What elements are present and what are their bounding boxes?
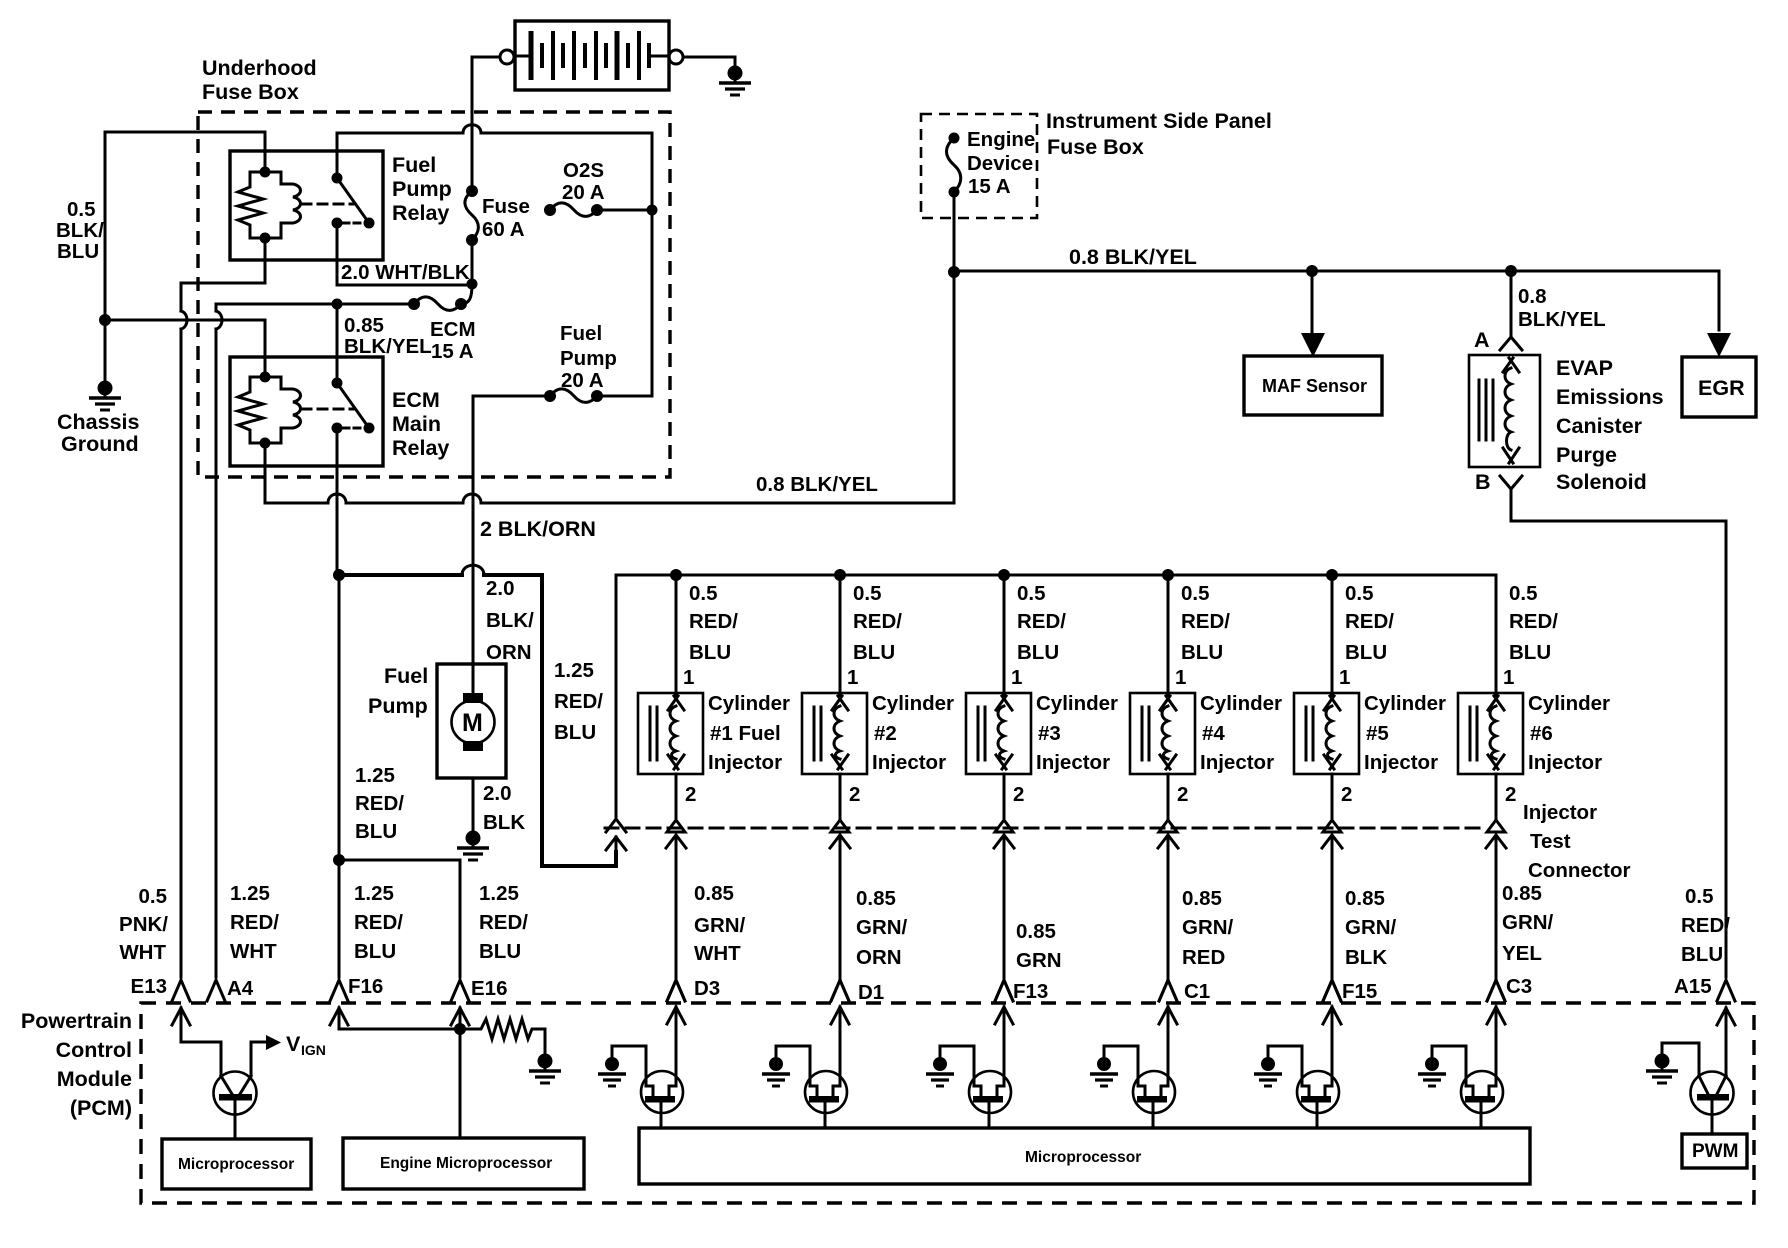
svg-text:0.85: 0.85: [344, 314, 384, 337]
svg-text:O2S: O2S: [563, 159, 604, 182]
svg-text:0.85: 0.85: [1182, 887, 1222, 910]
svg-text:Instrument Side Panel: Instrument Side Panel: [1046, 109, 1272, 133]
svg-text:Cylinder: Cylinder: [872, 692, 954, 715]
svg-text:GRN/: GRN/: [1345, 916, 1397, 939]
svg-text:Injector: Injector: [872, 751, 946, 774]
svg-text:M: M: [462, 709, 483, 737]
svg-text:Cylinder: Cylinder: [1200, 692, 1282, 715]
injector INJ6 (Cylinder #6 Injector): [1458, 575, 1558, 1001]
svg-text:BLK/YEL: BLK/YEL: [344, 335, 432, 358]
node injector 4 feed: [1162, 569, 1174, 581]
svg-text:Underhood: Underhood: [202, 56, 317, 80]
wire: O2S fuse to right rail: [597, 209, 652, 212]
svg-text:Cylinder: Cylinder: [1528, 692, 1610, 715]
wire F16 down to PCM: [338, 860, 341, 977]
svg-text:Microprocessor: Microprocessor: [1025, 1149, 1141, 1166]
svg-text:#2: #2: [874, 722, 897, 745]
svg-text:Fuse Box: Fuse Box: [1047, 135, 1144, 159]
svg-text:Chassis: Chassis: [57, 410, 140, 434]
component: Fuel Pump: [437, 664, 506, 778]
svg-text:Engine: Engine: [967, 128, 1035, 151]
node injector 1 feed: [670, 569, 682, 581]
svg-text:2 BLK/ORN: 2 BLK/ORN: [480, 517, 596, 541]
svg-text:2.0: 2.0: [486, 577, 515, 600]
svg-text:0.85: 0.85: [694, 882, 734, 905]
svg-text:Injector: Injector: [1528, 751, 1602, 774]
wire: 0.5 BLK/BLU top segment to fuel pump relay coil: [105, 132, 265, 167]
svg-text:ORN: ORN: [486, 641, 532, 664]
EVAP B connector chevron: [1500, 476, 1522, 489]
wire A4: hop over chassis wire, down to PCM: [216, 311, 222, 977]
bus connector chevrons at test connector line: [606, 819, 626, 852]
svg-text:GRN/: GRN/: [856, 916, 908, 939]
svg-text:F16: F16: [348, 975, 383, 998]
injector test connector dashed line: [605, 827, 1482, 830]
svg-text:RED/: RED/: [554, 690, 603, 713]
svg-text:GRN/: GRN/: [1502, 911, 1554, 934]
EGR arrow: [1707, 333, 1731, 357]
svg-text:1.25: 1.25: [230, 882, 270, 905]
svg-text:0.8 BLK/YEL: 0.8 BLK/YEL: [756, 473, 878, 496]
svg-text:Microprocessor: Microprocessor: [178, 1156, 294, 1173]
wire 0.5 BLK/BLU vertical: [104, 132, 107, 320]
node: 2.0 WHT/BLK junction: [467, 279, 478, 290]
svg-text:Canister: Canister: [1556, 414, 1643, 438]
svg-text:60 A: 60 A: [482, 218, 525, 241]
ECM 15A fuse: [408, 297, 467, 311]
wire: switch top to O2S branch (hop over battery wire at x=472): [337, 133, 652, 210]
node: bus left end: [333, 569, 345, 581]
svg-text:#1 Fuel: #1 Fuel: [710, 722, 781, 745]
wire to EVAP A with connector chevron: [1510, 271, 1513, 336]
fuse 60A: [465, 185, 479, 246]
svg-text:0.5: 0.5: [139, 885, 168, 908]
injector INJ4 (Cylinder #4 Injector): [1130, 575, 1230, 1001]
svg-text:MAF Sensor: MAF Sensor: [1262, 376, 1367, 396]
svg-text:Emissions: Emissions: [1556, 385, 1664, 409]
svg-text:Engine Microprocessor: Engine Microprocessor: [380, 1155, 552, 1172]
pin C3 connector fork: [1487, 980, 1505, 1001]
svg-text:GRN: GRN: [1016, 949, 1062, 972]
svg-text:BLU: BLU: [355, 820, 397, 843]
node: E16/F16/resistor junction: [454, 1023, 466, 1035]
pin E16 arrow inside PCM: [451, 1008, 469, 1025]
pin A4 connector fork: [207, 980, 225, 1001]
pin A15 arrow inside PCM: [1717, 1008, 1735, 1025]
PCM dashed border: [141, 1003, 1754, 1203]
svg-text:WHT: WHT: [230, 940, 277, 963]
wire: junction down to ECM relay switch: [336, 304, 339, 385]
svg-text:RED/: RED/: [479, 911, 528, 934]
svg-text:GRN/: GRN/: [1182, 916, 1234, 939]
svg-text:RED: RED: [1182, 946, 1225, 969]
injector INJ5 (Cylinder #5 Injector): [1294, 575, 1394, 1001]
microprocessor U3 box (injector drivers): [639, 1128, 1530, 1184]
svg-text:20 A: 20 A: [562, 181, 605, 204]
svg-text:RED/: RED/: [354, 911, 403, 934]
wire: fp fuse right up to O2S junction: [597, 213, 652, 396]
svg-text:1.25: 1.25: [355, 764, 395, 787]
EGR box: [1682, 357, 1756, 417]
svg-text:0.85: 0.85: [1016, 920, 1056, 943]
transistor Q6 driver cell (pin F15) with ground: [1254, 1007, 1341, 1128]
svg-text:Pump: Pump: [560, 347, 617, 370]
wire E13: hop over chassis wire, down to PCM: [181, 311, 187, 977]
svg-text:A15: A15: [1674, 975, 1712, 998]
svg-text:15 A: 15 A: [968, 175, 1011, 198]
pin E13 arrow inside PCM: [172, 1008, 190, 1025]
svg-text:BLK/: BLK/: [56, 219, 104, 242]
transistor Q3 driver cell (pin D1) with ground: [762, 1007, 849, 1128]
svg-text:Injector: Injector: [1364, 751, 1438, 774]
svg-text:#6: #6: [1530, 722, 1553, 745]
transistor Q4 driver cell (pin F13) with ground: [926, 1007, 1013, 1128]
svg-text:2.0: 2.0: [483, 782, 512, 805]
wire: junction down to chassis ground: [104, 320, 107, 381]
svg-text:Device: Device: [967, 152, 1033, 175]
svg-text:Cylinder: Cylinder: [708, 692, 790, 715]
svg-text:0.5: 0.5: [1685, 885, 1714, 908]
relay K1 box (Fuel Pump Relay): [230, 151, 383, 260]
node: chassis ground junction: [99, 314, 111, 326]
svg-text:PWM: PWM: [1692, 1141, 1738, 1162]
node: EVAP branch: [1505, 265, 1517, 277]
svg-text:E13: E13: [131, 975, 167, 998]
main 12V bus (thick) with hop over fuel pump wire: [339, 575, 616, 866]
svg-text:Connector: Connector: [1528, 859, 1631, 882]
node injector 3 feed: [998, 569, 1010, 581]
svg-text:BLU: BLU: [479, 940, 521, 963]
transistor Q2 driver cell (pin D3) with ground: [598, 1007, 685, 1128]
instrument side panel fuse box (dashed): [921, 114, 1037, 218]
svg-text:2.0 WHT/BLK: 2.0 WHT/BLK: [341, 261, 470, 284]
svg-text:A4: A4: [227, 977, 254, 1000]
svg-text:RED/: RED/: [230, 911, 279, 934]
pin E13 connector fork: [172, 980, 190, 1001]
svg-text:BLK/YEL: BLK/YEL: [1518, 308, 1606, 331]
pin C1 connector fork: [1159, 980, 1177, 1001]
svg-text:0.85: 0.85: [1502, 882, 1542, 905]
svg-text:1.25: 1.25: [354, 882, 394, 905]
pin F16 connector fork: [330, 980, 348, 1001]
svg-text:#5: #5: [1366, 722, 1389, 745]
node VIGN arrow: [266, 1035, 281, 1050]
svg-text:BLU: BLU: [554, 721, 596, 744]
pin F15 connector fork: [1323, 980, 1341, 1001]
svg-text:V: V: [286, 1032, 301, 1056]
svg-text:RED/: RED/: [1681, 914, 1730, 937]
ground (battery): [719, 66, 751, 96]
wire: E13 to transistor Q1: [181, 1008, 221, 1076]
chassis ground symbol: [89, 381, 121, 411]
svg-text:Pump: Pump: [392, 177, 452, 201]
motor M (fuel pump): [452, 701, 495, 744]
svg-text:F15: F15: [1342, 980, 1377, 1003]
svg-text:Cylinder: Cylinder: [1036, 692, 1118, 715]
injector INJ3 (Cylinder #3 Injector): [966, 575, 1066, 1001]
svg-text:Fuel: Fuel: [560, 322, 602, 345]
svg-text:BLK/: BLK/: [486, 609, 534, 632]
svg-text:Pump: Pump: [368, 694, 428, 718]
svg-text:D3: D3: [694, 977, 720, 1000]
svg-text:Injector: Injector: [1523, 801, 1597, 824]
node: MAF branch: [1306, 265, 1318, 277]
pin E16 connector fork: [451, 980, 469, 1001]
pin A15 connector fork: [1717, 980, 1735, 1001]
wire: fuse down to 0.8 BLK/YEL bus: [953, 192, 956, 272]
svg-text:BLU: BLU: [57, 240, 99, 263]
svg-text:Purge: Purge: [1556, 443, 1617, 467]
svg-text:C1: C1: [1184, 980, 1210, 1003]
svg-text:Module: Module: [57, 1067, 132, 1091]
svg-text:Fuel: Fuel: [384, 664, 428, 688]
node: 0.85 BLK/YEL junction: [332, 299, 343, 310]
wire: fuse60 bottom to junction and into ECM fuse: [461, 240, 472, 304]
relay K2 box (ECM Main Relay): [230, 357, 383, 466]
wire battery negative to ground: [683, 57, 735, 66]
wire: fuel pump relay coil bottom to E13 line: [181, 238, 265, 311]
svg-text:EVAP: EVAP: [1556, 356, 1613, 380]
svg-text:D1: D1: [858, 981, 884, 1004]
transistor Q1: [214, 1072, 257, 1115]
svg-text:ORN: ORN: [856, 946, 902, 969]
svg-text:EGR: EGR: [1698, 376, 1745, 400]
svg-text:Main: Main: [392, 412, 441, 436]
wire: down and left to ECM relay coil (0.8 BLK/YEL), hops at 337 and 472: [265, 272, 954, 503]
engine microprocessor U2 box: [343, 1138, 584, 1189]
svg-text:ECM: ECM: [430, 318, 476, 341]
svg-text:BLK: BLK: [483, 811, 525, 834]
svg-text:0.8: 0.8: [1518, 285, 1547, 308]
ground (resistor R1): [529, 1054, 561, 1084]
svg-text:0.85: 0.85: [1345, 887, 1385, 910]
injector INJ1 (Cylinder #1 Fuel Injector): [638, 575, 738, 1001]
svg-text:1.25: 1.25: [479, 882, 519, 905]
injector INJ2 (Cylinder #2 Injector): [802, 575, 902, 1001]
transistor Q8 (PWM driver): [1691, 1072, 1734, 1115]
svg-text:(PCM): (PCM): [70, 1096, 132, 1120]
svg-text:C3: C3: [1506, 975, 1532, 998]
svg-text:BLU: BLU: [354, 940, 396, 963]
wire: ECM fuse left to A4 corner: [216, 304, 414, 311]
PWM box: [1682, 1134, 1747, 1168]
svg-text:Fuse Box: Fuse Box: [202, 80, 299, 104]
svg-text:BLK: BLK: [1345, 946, 1387, 969]
svg-text:YEL: YEL: [1502, 942, 1542, 965]
resistor R1 (pull-down): [460, 1019, 545, 1054]
underhood fuse box dashed border: [198, 112, 670, 477]
node: F16/E16 split: [333, 854, 345, 866]
svg-text:B: B: [1475, 470, 1491, 494]
battery terminal circles: [500, 50, 514, 64]
thin bus to injectors: [616, 575, 1496, 693]
EVAP coil: [1503, 358, 1519, 372]
node injector 5 feed: [1326, 569, 1338, 581]
svg-text:Cylinder: Cylinder: [1364, 692, 1446, 715]
svg-text:F13: F13: [1013, 980, 1048, 1003]
pin F16 arrow inside PCM: [330, 1008, 348, 1025]
svg-text:Test: Test: [1530, 830, 1571, 853]
svg-text:1.25: 1.25: [554, 659, 594, 682]
wire: F16 to E16 node: [339, 1008, 460, 1029]
svg-text:A: A: [1474, 328, 1490, 352]
svg-text:Ground: Ground: [61, 432, 139, 456]
pin F13 connector fork: [995, 980, 1013, 1001]
svg-text:Injector: Injector: [708, 751, 782, 774]
node: 0.8 BLK/YEL junction at fuse output: [948, 266, 960, 278]
svg-text:#4: #4: [1202, 722, 1225, 745]
O2S 20A fuse: [544, 203, 603, 217]
microprocessor U1 box: [162, 1139, 311, 1189]
svg-text:Injector: Injector: [1200, 751, 1274, 774]
transistor Q7 driver cell (pin C3) with ground: [1418, 1007, 1505, 1128]
svg-text:Powertrain: Powertrain: [21, 1009, 132, 1033]
svg-text:Injector: Injector: [1036, 751, 1110, 774]
svg-text:15 A: 15 A: [431, 340, 474, 363]
svg-text:PNK/: PNK/: [119, 913, 168, 936]
svg-text:0.8 BLK/YEL: 0.8 BLK/YEL: [1069, 245, 1197, 269]
svg-text:RED/: RED/: [355, 792, 404, 815]
svg-text:ECM: ECM: [392, 388, 440, 412]
svg-text:Fuel: Fuel: [392, 153, 436, 177]
wire + arrow to MAF sensor: [1311, 271, 1314, 333]
svg-text:0.85: 0.85: [856, 887, 896, 910]
svg-text:WHT: WHT: [119, 941, 166, 964]
wire: E16 to engine microprocessor: [459, 1008, 462, 1138]
wire: ECM relay switch bottom down to bus: [337, 430, 339, 860]
fuel pump 20A fuse: [544, 389, 603, 403]
svg-text:#3: #3: [1038, 722, 1061, 745]
wire: junction to ECM relay coil top: [105, 320, 265, 373]
svg-text:BLU: BLU: [1681, 943, 1723, 966]
wire: EVAP B down, right, down to PCM A15: [1511, 489, 1726, 977]
fuse: Engine Device 15 A: [947, 133, 961, 198]
ECM main relay (coil + switch): [238, 372, 375, 449]
transistor Q5 driver cell (pin C1) with ground: [1090, 1007, 1177, 1128]
svg-text:0.5: 0.5: [67, 198, 96, 221]
svg-text:Solenoid: Solenoid: [1556, 470, 1647, 494]
wire battery positive to fuse box: [472, 57, 500, 191]
node: right rail junction: [647, 205, 658, 216]
svg-text:E16: E16: [471, 977, 507, 1000]
node injector 2 feed: [834, 569, 846, 581]
pin D3 connector fork: [667, 980, 685, 1001]
solenoid: EVAP purge solenoid box: [1469, 355, 1540, 467]
svg-text:Control: Control: [56, 1038, 132, 1062]
MAF sensor box: [1244, 356, 1382, 415]
wire + ground (transistor Q8 base circuit): [1662, 1043, 1699, 1076]
pin D1 connector fork: [831, 980, 849, 1001]
battery: [515, 21, 669, 90]
wire: fp relay switch bottom down, 2.0 WHT/BLK to junction: [337, 223, 472, 285]
svg-text:WHT: WHT: [694, 942, 741, 965]
svg-text:Relay: Relay: [392, 201, 449, 225]
wire to E16: [339, 860, 460, 977]
wire: fp fuse left corner down toward fuel pump: [473, 396, 550, 693]
wire 0.8 BLK/YEL horizontal bus: [954, 271, 1719, 330]
svg-text:Fuse: Fuse: [482, 195, 530, 218]
fuel pump relay (coil + switch): [238, 167, 375, 244]
wire: A15 to transistor Q8: [1725, 1008, 1728, 1076]
svg-text:20 A: 20 A: [561, 369, 604, 392]
battery cells: [531, 31, 649, 80]
svg-text:IGN: IGN: [301, 1042, 326, 1058]
svg-text:Relay: Relay: [392, 436, 449, 460]
wire: pump to ground: [472, 778, 475, 831]
svg-text:GRN/: GRN/: [694, 914, 746, 937]
